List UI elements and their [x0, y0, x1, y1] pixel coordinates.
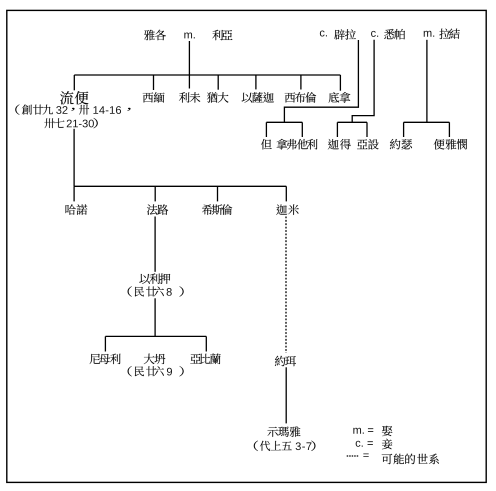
person Carmi 迦米: [276, 204, 299, 215]
stub to Dinah 底拿: [339, 75, 341, 91]
stub to Nemuel 尼母利: [104, 336, 106, 351]
scripture ref line1 卅: [79, 105, 89, 115]
label c. (concubine) for Bilhah: [320, 30, 327, 36]
stub to Simeon 西緬: [153, 75, 155, 90]
person Shemaiah 示瑪雅: [267, 426, 300, 437]
bar of Eliab's children: [105, 335, 206, 337]
person Zebulun 西布倫: [285, 92, 316, 103]
person Benjamin 便雅憫: [434, 139, 467, 150]
stub to Reuben 流便: [73, 75, 75, 90]
person Leah 利亞 (wife): [212, 30, 232, 41]
person Dathan 大坍: [144, 354, 166, 365]
label m. (married) Jacob-Leah: [184, 32, 194, 38]
label c. (concubine) for Zilpah: [371, 31, 378, 37]
scripture ref ）after 9: [179, 366, 183, 376]
person Levi 利未: [179, 92, 200, 103]
wire from Pallu down to Eliab: [154, 217, 156, 272]
legend dotted line sample: [347, 455, 359, 457]
legend key m.: [353, 428, 363, 434]
stub to Carmi 迦米: [285, 186, 287, 201]
wire elbow from Bilhah down to her children bar: [284, 40, 358, 122]
scripture ref （民廿六 under Eliab: [128, 286, 164, 296]
person Hanoch 哈諾: [66, 204, 88, 215]
stub to Hezron 希斯倫: [217, 186, 219, 201]
stub to Asher 亞設: [366, 122, 368, 137]
scripture ref line1 comma2: [127, 108, 130, 111]
scripture numbers 21-30: [67, 120, 94, 128]
scripture ref line2 ）: [93, 118, 97, 128]
scripture number 9: [167, 368, 172, 376]
wire from Reuben down to his children bar: [73, 129, 75, 187]
person Bilhah 辟拉 (concubine): [334, 29, 356, 40]
bar of Reuben's children: [74, 185, 286, 187]
bar of Leah's children: [74, 74, 340, 76]
bar of Rachel's children: [404, 121, 450, 123]
scripture ref ）after 8: [179, 286, 183, 296]
bar of Bilhah's children: [266, 121, 302, 123]
legend key c.: [356, 441, 363, 447]
wire from Eliab down to his children bar: [154, 298, 156, 336]
scripture numbers 3-7: [296, 442, 312, 450]
person Asher 亞設: [357, 139, 379, 149]
stub to Naphtali 拿弗他利: [301, 122, 303, 137]
person Pallu 法路: [147, 204, 168, 215]
person Joel 約珥: [275, 356, 296, 367]
person Zilpah 悉帕 (concubine): [384, 29, 405, 40]
person Joseph 約瑟: [390, 139, 412, 150]
scripture ref ）after 3-7: [311, 441, 315, 451]
scripture ref （代上五: [254, 441, 292, 451]
legend term 妾 (concubine): [382, 439, 392, 450]
person Eliab 以利押: [139, 273, 170, 284]
person Issachar 以薩迦: [242, 92, 274, 103]
scripture numbers 14-16: [93, 106, 121, 114]
legend key = row3: [363, 454, 368, 458]
wire from Rachel down to her children bar: [426, 40, 428, 123]
legend term 娶 (married): [382, 426, 393, 436]
person Gad 迦得: [328, 139, 351, 150]
person Hezron 希斯倫: [202, 204, 232, 215]
person Dan 但: [261, 139, 272, 150]
wire elbow from Zilpah down to her children bar: [352, 40, 374, 123]
stub to Pallu 法路: [154, 186, 156, 201]
person Reuben 流便 (subject): [60, 91, 88, 104]
stub to Benjamin 便雅憫: [448, 122, 450, 137]
label m. (married) for Rachel: [424, 31, 434, 37]
legend key = row1: [368, 428, 373, 432]
legend key = row2: [368, 441, 373, 445]
wire from Joel down to Shemaiah: [285, 367, 287, 423]
person Nemuel 尼母利: [90, 354, 121, 365]
stub to Abiram 亞比蘭: [205, 336, 207, 351]
scripture ref line1 （創廿九: [15, 104, 53, 114]
scripture numbers 32: [56, 106, 67, 114]
stub to Gad 迦得: [336, 122, 338, 137]
scripture ref line2 卅七: [44, 118, 64, 128]
stub to Issachar 以薩迦: [255, 75, 257, 89]
dotted wire from Carmi down to Joel (possible lineage): [285, 217, 287, 353]
stub to Zebulun 西布倫: [300, 75, 302, 90]
person Jacob 雅各: [144, 30, 166, 41]
stub to Hanoch 哈諾: [73, 186, 75, 201]
person Naphtali 拿弗他利: [277, 139, 318, 150]
person Abiram 亞比蘭: [190, 354, 220, 365]
stub to Joseph 約瑟: [403, 122, 405, 137]
stub to Dan 但: [265, 122, 267, 137]
scripture number 8: [167, 288, 172, 296]
bar of Zilpah's children: [337, 121, 367, 123]
person Dinah 底拿: [329, 92, 351, 103]
stub to Judah 猶大: [217, 75, 219, 90]
wire from Jacob-Leah marriage down through bar to Levi stub: [188, 41, 190, 89]
scripture ref line1 comma1: [71, 108, 74, 111]
person Judah 猶大: [207, 92, 229, 103]
legend term 可能的世系 (possible lineage): [382, 454, 439, 465]
person Simeon 西緬: [143, 92, 165, 103]
person Rachel 拉結 (wife): [439, 29, 459, 40]
scripture ref （民廿六 under Dathan: [128, 366, 164, 376]
